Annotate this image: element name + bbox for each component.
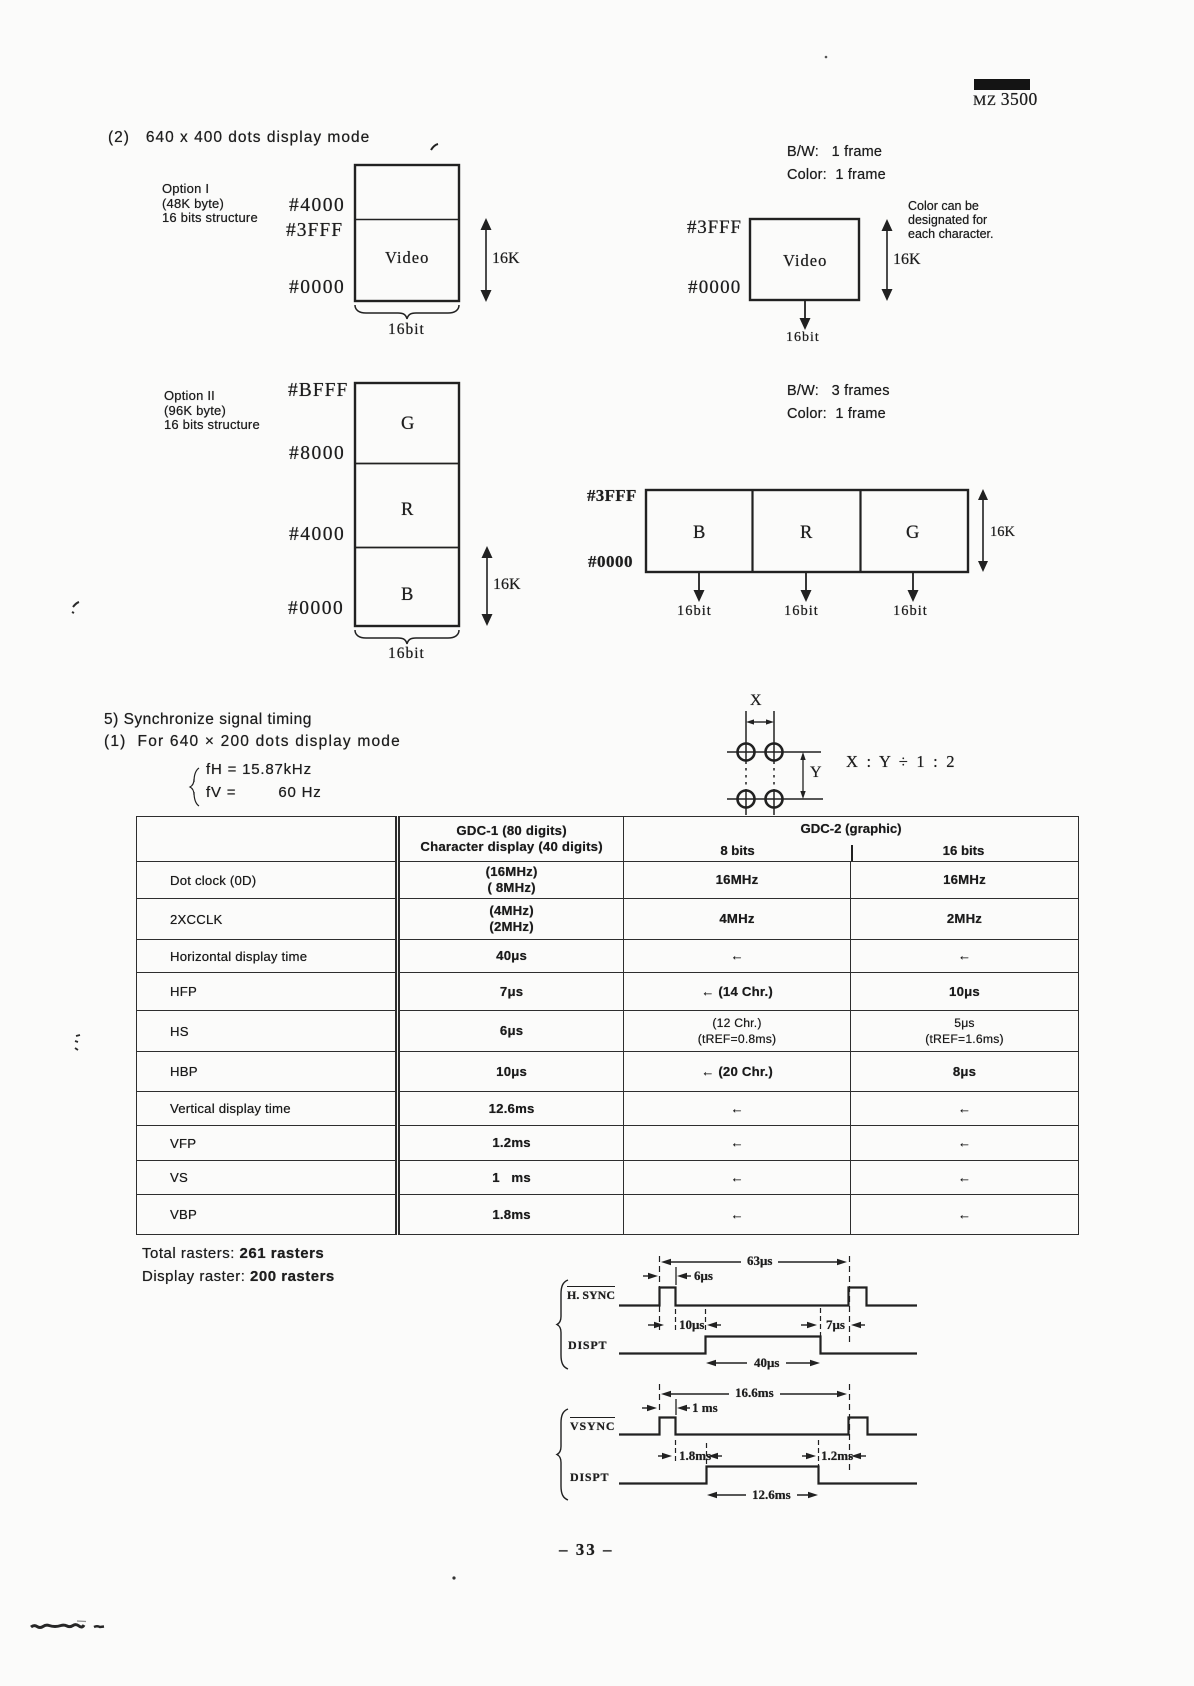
7us label [826, 1318, 845, 1333]
heading (1) 640x200 [104, 733, 401, 750]
vsync left dashed reference line [659, 1384, 661, 1410]
heading (2) 640x400 [108, 129, 370, 146]
option II divider R/B [355, 547, 459, 549]
40us dimension arrow [706, 1360, 820, 1366]
option II memory box [355, 383, 459, 626]
color 1 frame caption [787, 167, 886, 183]
VSYNC waveform [619, 1418, 917, 1435]
stray mark top [431, 144, 438, 150]
frame1 Video label [783, 252, 827, 270]
stray mark left margin upper [72, 602, 79, 613]
1.2ms label [821, 1449, 853, 1464]
frame1 16bit label [786, 330, 820, 346]
R 16bit arrow [801, 573, 812, 602]
frame1 addr #3FFF [687, 217, 742, 238]
BRG divider B/R [751, 490, 753, 572]
hsync right dashed reference line [849, 1256, 851, 1343]
BRG addr #3FFF [587, 486, 637, 505]
vsync right dashed reference line [849, 1384, 851, 1472]
dot matrix circles [738, 744, 783, 808]
dot matrix row axis lines [727, 752, 823, 799]
stray mark left margin lower [75, 1035, 80, 1050]
BRG G label [906, 523, 919, 544]
X pitch dimension [746, 719, 774, 724]
X Y ratio formula [846, 753, 957, 771]
DISPT label 1 [568, 1339, 607, 1352]
BRG 16bit label G [893, 603, 928, 619]
BRG 16bit label B [677, 603, 712, 619]
option I addr #3FFF [286, 220, 343, 242]
6us pointer arrows [643, 1267, 691, 1285]
1ms label [692, 1401, 718, 1416]
16.6ms dimension arrow [661, 1391, 847, 1397]
bottom left print artifact [31, 1621, 104, 1628]
BRG R label [800, 523, 812, 544]
stray dot bottom [452, 1576, 455, 1579]
G 16bit arrow [908, 573, 919, 602]
option II G label [401, 414, 414, 435]
heading 5 sync timing [104, 711, 312, 728]
fH value [206, 762, 312, 779]
frame1 16K label [893, 251, 921, 269]
stray dot top [825, 56, 828, 59]
option II addr #0000 [288, 598, 344, 620]
option II 16bit label [388, 645, 425, 662]
option II addr #BFFF [288, 380, 348, 402]
option I 16bit brace [355, 305, 459, 319]
BRG 16K label [990, 524, 1015, 540]
option II caption [164, 389, 260, 433]
Y pitch dimension [800, 752, 805, 799]
total rasters line [142, 1246, 324, 1263]
timing parameters table [136, 816, 1079, 1235]
BRG addr #0000 [588, 552, 633, 571]
H.SYNC waveform [619, 1288, 917, 1306]
VSYNC label [570, 1420, 615, 1433]
option II 16bit brace [355, 630, 459, 644]
option I memory box [355, 165, 459, 301]
1.8ms label [679, 1449, 711, 1464]
X pitch label [750, 692, 762, 710]
frame1 note [908, 200, 993, 241]
display raster line [142, 1269, 335, 1286]
option II divider G/R [355, 463, 459, 465]
option II R label [401, 500, 413, 521]
63us dimension arrow [661, 1259, 847, 1265]
hsync group brace [557, 1280, 568, 1369]
hsync left dashed reference line [659, 1256, 661, 1330]
vsync group brace [557, 1409, 568, 1500]
fV value [206, 785, 322, 802]
option II addr #4000 [289, 524, 345, 546]
10us pointer arrows [648, 1309, 721, 1333]
BRG B label [693, 523, 705, 544]
option II 16K arrow [482, 546, 493, 626]
bw 1 frame caption [787, 144, 882, 160]
option I addr #0000 [289, 277, 345, 299]
option II addr #8000 [289, 443, 345, 465]
BRG divider R/G [859, 490, 861, 572]
dot matrix column axis lines [746, 711, 774, 815]
option I 16K arrow [481, 218, 492, 302]
option II 16K label [493, 576, 521, 594]
DISPT label 2 [570, 1471, 609, 1484]
video frame 16K arrow [882, 219, 893, 301]
1.2ms pointer arrows [802, 1440, 866, 1466]
DISPT waveform 2 [619, 1467, 917, 1484]
option I 16bit label [388, 321, 425, 338]
7us pointer arrows [801, 1308, 865, 1343]
fH fV brace [190, 768, 199, 806]
video frame 16bit arrow [800, 301, 811, 330]
option I 16K label [492, 250, 520, 268]
Y pitch label [810, 764, 822, 782]
B 16bit arrow [694, 573, 705, 602]
color 1 frame caption 2 [787, 406, 886, 422]
1ms pointer arrows [642, 1399, 690, 1415]
video frame box (1 frame) [750, 219, 859, 300]
12.6ms label [746, 1488, 797, 1503]
1.8ms pointer arrows [658, 1440, 722, 1466]
12.6ms dimension arrow [707, 1492, 818, 1498]
bw 3 frames caption [787, 383, 890, 399]
option I caption [162, 182, 258, 226]
16.6ms label [729, 1386, 780, 1401]
header redaction bar [974, 79, 1030, 90]
6us label [694, 1269, 713, 1284]
40us label [747, 1356, 786, 1371]
option I addr #4000 [289, 195, 345, 217]
option I divider line [355, 219, 459, 221]
BRG 16K arrow [978, 489, 988, 572]
10us label [679, 1318, 704, 1333]
option II B label [401, 585, 413, 606]
63us label [741, 1254, 778, 1269]
H.SYNC label [567, 1289, 615, 1302]
page number 33 [559, 1540, 614, 1559]
option I Video label [385, 249, 429, 267]
MZ 3500 model label [973, 90, 1038, 110]
DISPT waveform 1 [619, 1337, 917, 1354]
frame1 addr #0000 [688, 277, 742, 298]
BRG 16bit label R [784, 603, 819, 619]
BRG frames box [646, 490, 968, 572]
